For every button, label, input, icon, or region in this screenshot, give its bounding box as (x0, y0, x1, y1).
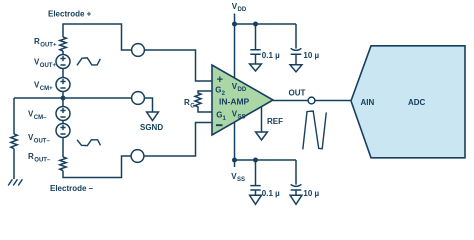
node junction dot (61, 96, 66, 101)
label 0.1u bottom (262, 189, 280, 198)
ground REF triangle (256, 132, 268, 140)
resistor left bias (11, 134, 17, 149)
svg-text:CM+: CM+ (40, 86, 53, 92)
wire vout+ to vcm+ (62, 69, 64, 78)
svg-text:DD: DD (238, 87, 247, 93)
capacitor 0.1u top (250, 24, 260, 64)
label VCM+ (34, 81, 53, 93)
resistor ROUT- (60, 157, 66, 170)
svg-text:SGND: SGND (140, 123, 163, 132)
svg-text:OUT+: OUT+ (40, 63, 57, 69)
svg-text:G: G (190, 104, 195, 110)
label REF (267, 117, 283, 126)
label VOUT+ (34, 58, 56, 70)
label 10u bottom (303, 189, 319, 198)
label ROUT- (28, 152, 51, 164)
node electrode- connector circle (131, 150, 144, 163)
pin + label (217, 74, 223, 86)
svg-text:OUT–: OUT– (34, 158, 51, 164)
svg-text:OUT+: OUT+ (40, 43, 57, 49)
wire VSS rail (235, 159, 297, 161)
wire resistor to vout+ (62, 51, 64, 55)
svg-text:OUT: OUT (289, 89, 306, 98)
wire bottom electrode- run (63, 156, 131, 178)
wire OUT from amp (273, 100, 308, 102)
wire VSS vertical from amp (234, 122, 236, 167)
label Electrode + (48, 10, 92, 19)
wire electrode+ to amp +in (144, 50, 212, 81)
wire vcm+ down to bus (62, 92, 64, 99)
ground SGND triangle (147, 112, 159, 121)
source VCM- (56, 107, 70, 121)
label ADC (408, 98, 426, 107)
resistor ROUT+ (60, 37, 66, 51)
node sgnd connector circle (132, 92, 145, 105)
label RG (184, 98, 195, 110)
waveform VOUT+ trapezoid (77, 58, 100, 65)
svg-text:Electrode +: Electrode + (48, 10, 92, 19)
capacitor 0.1u bottom (250, 160, 260, 195)
svg-text:0.1 µ: 0.1 µ (262, 51, 280, 60)
waveform OUT pulse (303, 111, 327, 149)
svg-text:CM–: CM– (34, 115, 47, 121)
wire electrode- to amp -in (144, 123, 212, 157)
ground triangle 0.1u top (250, 64, 262, 71)
wire bus to vcm- (62, 98, 64, 107)
pin G2 label (215, 86, 225, 97)
pin VDD label inside (232, 82, 247, 93)
wire mid bus (14, 97, 132, 99)
wire left branch down (13, 98, 15, 134)
ground triangle 10u top (290, 65, 302, 72)
node electrode+ connector circle (132, 44, 145, 57)
wire to chassis ground (13, 149, 15, 179)
label 10u top (303, 51, 319, 60)
wire vcm- to vout- (62, 121, 64, 124)
ground triangle 0.1u bottom (250, 195, 262, 204)
resistor RG with gain pins (195, 91, 212, 112)
ground triangle 10u bottom (290, 195, 302, 204)
ADC block (351, 46, 465, 158)
label 0.1u top (262, 51, 280, 60)
capacitor 10u bottom polarized (291, 160, 302, 195)
wire OUT to ADC (315, 100, 351, 102)
svg-text:R: R (184, 98, 190, 107)
op-amp IN-AMP triangle (212, 65, 273, 135)
svg-text:R: R (34, 37, 40, 46)
label VCM- (28, 110, 47, 122)
label Electrode - (50, 184, 94, 193)
source VOUT+ (56, 55, 70, 69)
label AIN (361, 98, 375, 107)
label SGND (140, 123, 163, 132)
waveform VOUT- trapezoid (77, 140, 101, 146)
wire VDD vertical into amp (234, 14, 236, 78)
ground chassis hatched (8, 179, 22, 185)
node OUT circle (308, 97, 315, 104)
capacitor 10u top polarized (291, 24, 302, 65)
label VOUT- (28, 133, 50, 145)
label VSS supply (231, 172, 245, 183)
pin G1 label (216, 111, 226, 123)
svg-text:10 µ: 10 µ (303, 189, 319, 198)
wire to sgnd (144, 98, 152, 112)
label ROUT+ (34, 37, 57, 49)
pin VSS label inside (232, 110, 246, 121)
svg-text:Electrode –: Electrode – (50, 184, 94, 193)
svg-text:REF: REF (267, 117, 283, 126)
svg-text:AIN: AIN (361, 98, 375, 107)
svg-text:DD: DD (238, 7, 247, 13)
label IN-AMP (219, 97, 250, 107)
node VSS junction dots (232, 158, 237, 163)
label VDD supply (232, 2, 247, 13)
svg-text:IN-AMP: IN-AMP (219, 97, 250, 107)
wire VDD rail (235, 23, 297, 25)
svg-text:+: + (217, 74, 223, 86)
wire REF pin (261, 107, 263, 132)
wire vout- to rout- (62, 138, 64, 158)
wire top electrode+ run (63, 24, 132, 50)
node VDD junction dots (232, 22, 237, 27)
svg-text:OUT–: OUT– (34, 139, 51, 145)
label OUT (289, 89, 306, 98)
svg-text:SS: SS (237, 177, 245, 183)
source VOUT- (56, 124, 70, 138)
svg-text:10 µ: 10 µ (303, 51, 319, 60)
svg-text:R: R (28, 152, 34, 161)
svg-text:0.1 µ: 0.1 µ (262, 189, 280, 198)
svg-text:G: G (215, 86, 221, 95)
svg-text:SS: SS (238, 115, 246, 121)
pin - label (216, 124, 223, 126)
svg-text:G: G (216, 111, 222, 120)
source VCM+ (56, 78, 70, 92)
svg-text:ADC: ADC (408, 98, 426, 107)
